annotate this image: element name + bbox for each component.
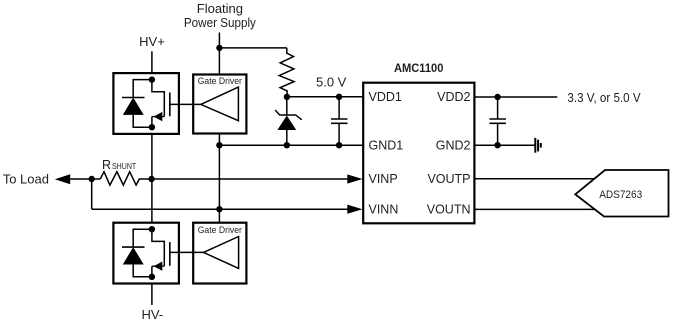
svg-text:HV-: HV-: [141, 307, 163, 322]
svg-text:GND2: GND2: [436, 138, 471, 152]
wire VOUTP: [474, 178, 597, 180]
node VDD2 junction: [494, 94, 500, 100]
IGBT module Q2 box: [113, 223, 178, 284]
node C1 bottom: [336, 142, 342, 148]
zener diode D1: [275, 97, 302, 145]
op-amp triangle U2: [201, 87, 239, 121]
wire Q2 emitter to HV-: [151, 284, 153, 305]
node Q2 collector: [149, 226, 155, 232]
wire Q1 emitter to shunt node: [151, 134, 153, 179]
svg-text:SHUNT: SHUNT: [112, 161, 136, 171]
wire shunt node down to Q2: [151, 179, 153, 223]
transistor Q2: [152, 229, 204, 277]
node VDD1 net junction: [284, 94, 290, 100]
node zener bottom on GND1: [284, 142, 290, 148]
svg-text:VOUTP: VOUTP: [427, 172, 470, 186]
svg-text:5.0 V: 5.0 V: [316, 75, 347, 90]
gate driver U2 box: [193, 75, 246, 134]
transistor Q1: [152, 80, 201, 128]
svg-text:AMC1100: AMC1100: [394, 61, 444, 75]
ground symbol: [535, 138, 541, 153]
svg-text:VOUTN: VOUTN: [427, 202, 471, 216]
node GND2 junction: [494, 142, 500, 148]
node shunt right: [148, 176, 154, 182]
diode D_Q2: [122, 229, 152, 277]
svg-text:To Load: To Load: [3, 172, 49, 187]
wire GND1: [219, 144, 362, 146]
svg-text:VINN: VINN: [369, 202, 399, 216]
wire VINP: [152, 178, 352, 180]
svg-text:Gate Driver: Gate Driver: [198, 76, 242, 86]
op-amp U1 AMC1100 box: [363, 83, 474, 224]
ADC ADS7263: [575, 170, 668, 217]
svg-text:3.3 V, or 5.0 V: 3.3 V, or 5.0 V: [567, 90, 640, 105]
wire VDD2: [474, 96, 557, 98]
svg-text:Power Supply: Power Supply: [184, 15, 256, 30]
wire VINN: [92, 208, 352, 210]
wire to load: [66, 178, 100, 180]
op-amp triangle U3: [204, 237, 239, 269]
node floating supply junction: [216, 45, 222, 51]
wire floating supply vertical: [218, 33, 220, 76]
svg-text:VDD2: VDD2: [437, 90, 470, 104]
node shunt left: [89, 176, 95, 182]
node Q1 collector: [149, 76, 155, 82]
gate driver U3 box: [193, 223, 246, 284]
wire gate driver 1 down to gate driver 2: [218, 134, 220, 223]
svg-text:R: R: [102, 158, 111, 172]
node Q1 emitter: [149, 124, 155, 130]
capacitor C2: [489, 97, 506, 145]
svg-text:HV+: HV+: [139, 34, 165, 49]
wire HV+ to IGBT module: [151, 51, 153, 73]
label Floating Power Supply: [184, 1, 256, 30]
wire VDD1: [287, 96, 363, 98]
node Q2 emitter: [149, 274, 155, 280]
resistor R1: [279, 48, 294, 97]
wire top horizontal to resistor: [219, 47, 286, 49]
diode D_Q1: [122, 80, 152, 128]
node VINN gate-driver junction: [216, 206, 222, 212]
node GND1 left junction: [216, 142, 222, 148]
node C1 top: [336, 94, 342, 100]
wire shunt left down: [91, 179, 93, 209]
svg-text:Gate Driver: Gate Driver: [198, 225, 242, 235]
svg-text:VDD1: VDD1: [369, 90, 402, 104]
label R_SHUNT: [102, 158, 136, 172]
IGBT Q2 internals: [122, 226, 204, 280]
capacitor C1: [331, 97, 348, 145]
arrow to load: [55, 174, 70, 184]
IGBT Q1 internals: [122, 76, 201, 130]
IGBT module Q1 box: [113, 73, 178, 134]
wire VOUTN: [474, 208, 595, 210]
arrow VINN: [347, 205, 362, 214]
svg-text:Floating: Floating: [197, 1, 243, 16]
svg-text:GND1: GND1: [369, 138, 404, 152]
svg-text:ADS7263: ADS7263: [599, 189, 642, 201]
arrow VINP: [347, 174, 362, 183]
svg-text:VINP: VINP: [369, 172, 398, 186]
wire GND2: [474, 144, 534, 146]
resistor R_SHUNT: [100, 172, 151, 185]
